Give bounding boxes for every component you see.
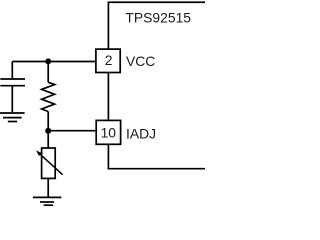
thermistor RT1 arrow [36,151,63,175]
op-amp U1 TPS92515 chip body outline [108,2,205,168]
pin 10 box [96,120,120,144]
node A junction dot [45,58,51,64]
resistor R1 [42,61,55,130]
ground (bottom) [33,197,61,205]
wire VCC net: capacitor/resistor top to pin 2 [12,61,96,63]
svg-text:10: 10 [101,125,117,141]
svg-text:VCC: VCC [126,53,155,69]
svg-text:IADJ: IADJ [126,125,156,141]
ground (left) [0,113,25,122]
svg-text:TPS92515: TPS92515 [125,9,191,25]
pin 2 box [96,49,120,72]
thermistor RT1 body [42,131,56,198]
node B junction dot [45,128,51,134]
svg-text:2: 2 [105,52,113,68]
capacitor C1 [0,62,25,113]
wire IADJ net: node B to pin 10 [48,130,96,132]
